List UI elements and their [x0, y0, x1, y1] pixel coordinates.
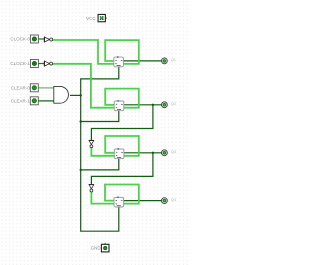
- svg-text:Q1: Q1: [171, 57, 177, 62]
- svg-text:Q3: Q3: [171, 149, 177, 154]
- svg-text:CLEAR-1: CLEAR-1: [11, 98, 31, 103]
- svg-text:CLEAR-0: CLEAR-0: [11, 85, 31, 90]
- svg-text:Q4: Q4: [171, 197, 177, 202]
- svg-text:GND: GND: [91, 246, 102, 251]
- svg-text:CLOCK-1: CLOCK-1: [10, 61, 30, 66]
- svg-text:CLOCK-0: CLOCK-0: [10, 37, 30, 42]
- svg-text:VCC: VCC: [86, 16, 96, 21]
- svg-text:Q2: Q2: [171, 101, 177, 106]
